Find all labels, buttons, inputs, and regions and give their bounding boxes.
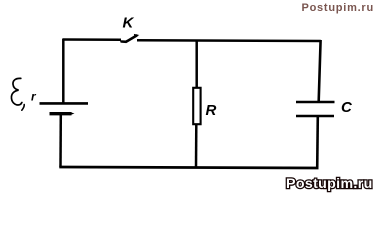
label comma after EMF <box>22 105 24 111</box>
label C <box>341 99 353 116</box>
watermark bottom right Postupim.ru <box>286 176 373 192</box>
wire bottom <box>59 167 318 168</box>
capacitor C top plate <box>296 101 335 104</box>
svg-text:K: K <box>123 15 135 32</box>
label r (internal resistance) <box>31 90 37 104</box>
svg-text:C: C <box>341 99 353 116</box>
wire left battery bottom lead <box>59 114 62 167</box>
svg-text:R: R <box>206 102 217 119</box>
battery EMF source: short plate <box>50 112 75 115</box>
wire top-left segment <box>63 38 122 41</box>
wire right top lead <box>319 40 321 101</box>
label K <box>123 15 135 32</box>
wire middle bottom lead <box>195 124 198 168</box>
battery EMF source: long plate <box>40 102 89 105</box>
svg-text:Postupim.ru: Postupim.ru <box>302 2 374 14</box>
watermark top right Postupim.ru <box>302 2 374 14</box>
switch K lever <box>122 34 140 42</box>
wire middle top lead <box>195 40 198 89</box>
label R <box>206 102 217 119</box>
wire left battery top lead <box>62 39 65 103</box>
capacitor C bottom plate <box>296 115 334 118</box>
svg-text:Postupim.ru: Postupim.ru <box>286 176 373 192</box>
resistor R body <box>193 88 200 124</box>
label EMF script-E <box>11 78 21 105</box>
wire right bottom lead <box>316 116 319 169</box>
wire top-right segment <box>137 39 321 42</box>
